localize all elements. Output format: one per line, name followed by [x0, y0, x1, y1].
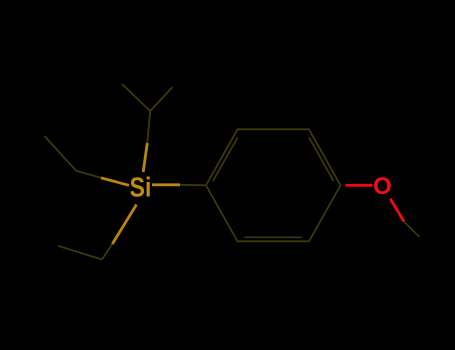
double bond inner line bottom edge — [245, 236, 303, 238]
wire C(aryl)-O bond (red) — [346, 184, 373, 187]
svg-text:Si: Si — [130, 172, 152, 203]
wire Si-CH up half-bond (silicon side, gold) — [143, 143, 147, 172]
double bond inner line upper-left edge — [213, 137, 238, 181]
wire ethyl (left) CH2 continuation (olive) — [76, 171, 101, 178]
wire O-CH3 half-bond (carbon side, olive) — [404, 222, 420, 238]
wire O-CH3 half-bond (oxygen side, red) — [390, 199, 404, 222]
wire ethyl (left) CH3 bond (olive) — [45, 136, 77, 171]
wire isopropyl methyl branch right — [150, 87, 172, 111]
wire isopropyl methyl branch left — [122, 84, 150, 111]
wire Si-C(aryl) half-bond (silicon side, gold) — [152, 183, 180, 186]
benzene ring C1-C6 (olive hexagon) — [206, 129, 341, 241]
wire Si-CH2 lower-left half-bond (silicon side, gold) — [112, 205, 136, 245]
wire C(aryl)-Si half-bond (carbon side, olive) — [180, 184, 206, 187]
wire isopropyl CH: C-C bond upper (carbon side, olive) — [147, 111, 150, 143]
svg-text:O: O — [373, 173, 392, 200]
double bond inner line upper-right edge — [309, 137, 334, 181]
wire Si-CH2 left half-bond (silicon side, gold) — [101, 178, 129, 186]
wire ethyl (lower-left) CH3 bond (olive) — [58, 246, 102, 260]
wire ethyl (lower-left) CH2 continuation (olive) — [102, 244, 112, 260]
